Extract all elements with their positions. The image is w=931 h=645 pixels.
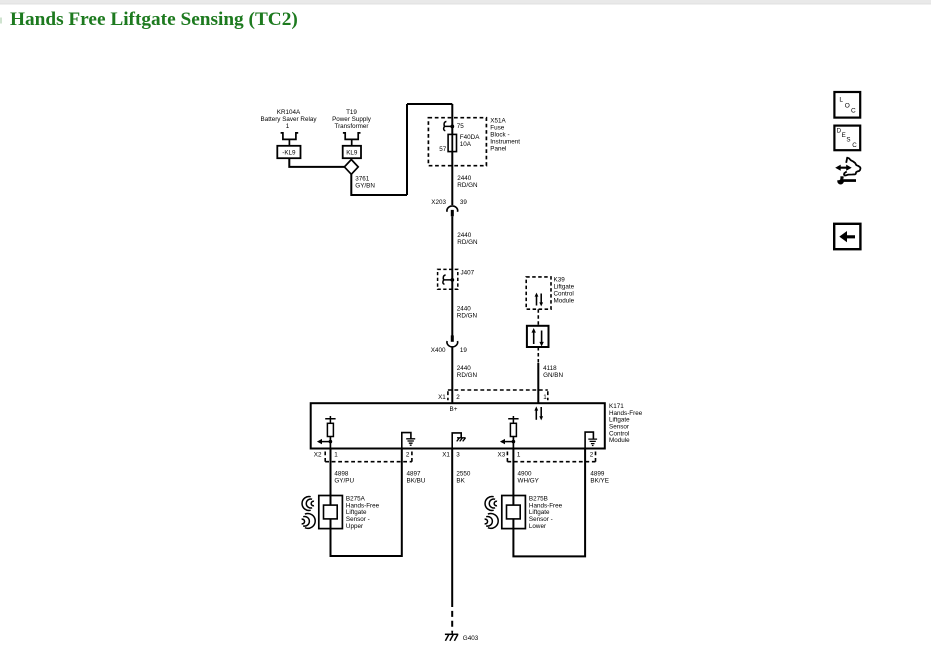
- inline connector X203 pin 39: [447, 206, 458, 216]
- wire: pin X2-1 to sensor A: [330, 449, 332, 496]
- svg-text:2: 2: [456, 394, 460, 401]
- module internal: supply resistor + arrow (pin X3-1): [500, 416, 519, 449]
- wire label 3761 GY/BN: [355, 176, 375, 190]
- svg-text:KL9: KL9: [346, 149, 358, 156]
- svg-text:Power Supply: Power Supply: [332, 116, 372, 123]
- wire: pin X1-3 ground run: [451, 449, 453, 602]
- dashed stem K39 to connector block: [537, 309, 539, 326]
- svg-text:Fuse: Fuse: [490, 124, 504, 131]
- svg-text:B275B: B275B: [529, 495, 548, 502]
- svg-text:X1: X1: [442, 452, 450, 459]
- svg-text:O: O: [845, 102, 850, 109]
- svg-text:Sensor -: Sensor -: [529, 516, 553, 523]
- svg-text:X1: X1: [438, 394, 446, 401]
- dashed ground lead: [451, 601, 453, 632]
- svg-text:X51A: X51A: [490, 117, 506, 124]
- svg-text:2440: 2440: [457, 365, 472, 372]
- wire: sensor B loop back to pin X3-2: [513, 449, 585, 557]
- terminal clip inside J407: [443, 275, 452, 284]
- svg-text:T19: T19: [346, 109, 357, 116]
- terminal clip 75: [444, 121, 453, 130]
- svg-text:Liftgate: Liftgate: [346, 509, 367, 516]
- bottom connector bracket X3: [507, 452, 595, 462]
- svg-text:B+: B+: [450, 406, 458, 413]
- bottom wire labels: [334, 471, 609, 485]
- svg-text:BK/BU: BK/BU: [407, 478, 426, 485]
- svg-text:1: 1: [286, 123, 290, 130]
- svg-text:X2: X2: [314, 452, 322, 459]
- svg-text:4118: 4118: [543, 365, 557, 372]
- svg-text:Module: Module: [554, 298, 575, 305]
- connector X1 dashed bracket: [448, 390, 548, 400]
- wire: top horizontal feed: [407, 103, 452, 105]
- fuse F40DA body: [448, 134, 456, 151]
- svg-text:Hands Free Liftgate Sensing (T: Hands Free Liftgate Sensing (TC2): [10, 9, 298, 30]
- svg-text:RD/GN: RD/GN: [457, 313, 478, 320]
- svg-text:WH/GY: WH/GY: [518, 478, 540, 485]
- svg-text:K39: K39: [554, 277, 566, 284]
- wire label 2440 RD/GN (3): [457, 306, 478, 320]
- svg-text:F40DA: F40DA: [460, 134, 480, 141]
- svg-text:Sensor -: Sensor -: [346, 516, 370, 523]
- fuse element line: [451, 134, 453, 151]
- arrows inside module below pin 1: [534, 406, 543, 420]
- svg-text:1: 1: [517, 452, 521, 459]
- connector fork above KL9: [343, 133, 361, 146]
- svg-text:39: 39: [460, 199, 468, 206]
- wire: pin X3-1 to sensor B: [512, 449, 514, 496]
- inline connector X400 pin 19: [447, 335, 458, 347]
- svg-text:Module: Module: [609, 437, 630, 444]
- svg-text:Upper: Upper: [346, 523, 363, 530]
- relay KR104A labels: [261, 109, 318, 130]
- svg-text:S: S: [846, 137, 850, 144]
- fuse block labels: [439, 117, 520, 153]
- toolbar icon connector-repair (double arrow, shell, wrench): [835, 158, 860, 185]
- wire: fuse output down to X203: [451, 152, 453, 205]
- coil box -KL9: [277, 146, 300, 158]
- svg-text:KR104A: KR104A: [277, 109, 301, 116]
- module internal: ground hook (pin X2-2): [402, 433, 415, 449]
- bottom connector bracket X2: [325, 452, 412, 462]
- coil box KL9: [343, 146, 361, 158]
- sensor B275B labels: [529, 495, 563, 530]
- junction dot J407: [450, 278, 454, 282]
- svg-text:GN/BN: GN/BN: [543, 372, 563, 379]
- sensor B275B body: [502, 496, 526, 529]
- wire: sensor A loop back to pin X2-2: [331, 449, 402, 557]
- svg-text:RD/GN: RD/GN: [457, 182, 478, 189]
- top chrome bar: [0, 0, 931, 4]
- K39 arrows: [535, 293, 544, 307]
- wire label 2440 RD/GN (1): [457, 175, 478, 189]
- left edge tick: [0, 18, 2, 24]
- sensor B275A labels: [346, 495, 380, 530]
- svg-text:C: C: [852, 142, 857, 149]
- svg-text:1: 1: [543, 394, 547, 401]
- wire: 4118 solid segment to module pin 1: [537, 363, 539, 403]
- wire label 2440 RD/GN (4): [457, 365, 478, 379]
- svg-text:X3: X3: [498, 452, 506, 459]
- bottom pin labels: [314, 452, 594, 459]
- svg-text:2440: 2440: [457, 175, 472, 182]
- wire: bottom jog from splice to feed loop: [351, 173, 407, 195]
- toolbar icon DESC: [834, 126, 860, 151]
- wire: X203 to X400: [451, 216, 453, 335]
- svg-text:RD/GN: RD/GN: [457, 372, 478, 379]
- svg-text:2: 2: [590, 452, 594, 459]
- svg-text:X400: X400: [431, 347, 446, 354]
- toolbar icon back: [834, 224, 860, 249]
- splice diamond S-node: [344, 160, 358, 175]
- junction dot at 75: [450, 125, 454, 129]
- wire label 4118 GN/BN: [543, 365, 563, 379]
- wire label 2440 RD/GN (2): [457, 232, 478, 246]
- svg-text:BK/YE: BK/YE: [590, 478, 609, 485]
- wire: X400 to module B+ pin: [451, 346, 453, 403]
- svg-text:-KL9: -KL9: [282, 149, 296, 156]
- wire: left vertical of feed loop: [406, 104, 408, 195]
- wire: splice to relay branch: [289, 158, 344, 167]
- fuse block X51A dashed outline: [428, 118, 486, 166]
- svg-text:RD/GN: RD/GN: [457, 239, 478, 246]
- K39 connector block (solid box with arrows): [527, 326, 549, 347]
- svg-text:1: 1: [334, 452, 338, 459]
- svg-text:BK: BK: [456, 478, 465, 485]
- K171 module box: [311, 403, 605, 448]
- svg-text:Panel: Panel: [490, 145, 506, 152]
- svg-text:G403: G403: [463, 635, 479, 642]
- svg-text:Liftgate: Liftgate: [554, 284, 575, 291]
- wire: fuse input drop: [451, 104, 453, 134]
- svg-text:E: E: [842, 132, 846, 139]
- svg-text:Transformer: Transformer: [334, 123, 368, 130]
- ground G403 symbol: [445, 632, 458, 641]
- dashed stem below connector block: [537, 347, 539, 363]
- transformer T19 labels: [332, 109, 372, 130]
- K39 liftgate control module dashed box: [526, 277, 551, 309]
- svg-text:Battery Saver Relay: Battery Saver Relay: [261, 116, 318, 123]
- sensor B275A body: [319, 496, 343, 529]
- svg-text:19: 19: [460, 347, 468, 354]
- svg-text:J407: J407: [461, 270, 475, 277]
- toolbar icon LOC: [834, 92, 860, 118]
- svg-text:Control: Control: [554, 291, 574, 298]
- svg-text:GY/PU: GY/PU: [334, 478, 354, 485]
- module internal: ground hook (pin X3-2): [585, 432, 597, 448]
- svg-text:10A: 10A: [460, 141, 472, 148]
- svg-text:57: 57: [439, 146, 447, 153]
- svg-text:75: 75: [457, 123, 465, 130]
- svg-text:Lower: Lower: [529, 523, 546, 530]
- svg-text:L: L: [839, 96, 843, 103]
- svg-text:Instrument: Instrument: [490, 138, 520, 145]
- svg-text:2440: 2440: [457, 232, 472, 239]
- svg-text:Block -: Block -: [490, 131, 509, 138]
- svg-text:2440: 2440: [457, 306, 472, 313]
- svg-text:Liftgate: Liftgate: [529, 509, 550, 516]
- svg-text:3: 3: [456, 452, 460, 459]
- splice pack J407 dashed box: [438, 269, 458, 289]
- connector X1 pin labels: [438, 394, 547, 401]
- svg-text:B275A: B275A: [346, 495, 366, 502]
- sensor B275B sound waves: [485, 497, 499, 529]
- K171 labels: [609, 403, 643, 444]
- module internal: supply resistor + arrow (pin X2-1): [317, 416, 336, 449]
- svg-text:GY/BN: GY/BN: [355, 183, 375, 190]
- sensor B275A sound waves: [302, 497, 316, 529]
- K39 labels: [554, 277, 575, 305]
- svg-text:C: C: [851, 108, 856, 115]
- svg-text:X203: X203: [431, 199, 446, 206]
- connector fork above -KL9: [281, 133, 299, 146]
- module internal: chassis hook (pin X1-3): [452, 433, 465, 449]
- svg-text:2: 2: [406, 452, 410, 459]
